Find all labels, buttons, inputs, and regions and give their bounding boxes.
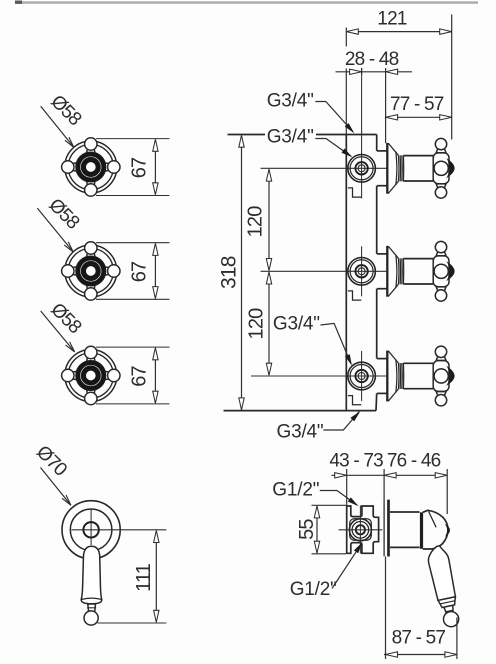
svg-text:G3/4": G3/4" bbox=[277, 422, 324, 443]
svg-text:67: 67 bbox=[128, 157, 150, 178]
svg-text:43 - 73: 43 - 73 bbox=[329, 451, 383, 472]
svg-text:G3/4": G3/4" bbox=[267, 127, 314, 148]
svg-text:55: 55 bbox=[296, 519, 318, 540]
svg-text:G3/4": G3/4" bbox=[267, 91, 314, 112]
svg-text:67: 67 bbox=[128, 365, 150, 386]
svg-text:G3/4": G3/4" bbox=[273, 314, 320, 335]
svg-text:120: 120 bbox=[244, 206, 266, 238]
svg-text:111: 111 bbox=[133, 563, 155, 592]
svg-text:76 - 46: 76 - 46 bbox=[387, 451, 441, 472]
svg-text:87 - 57: 87 - 57 bbox=[392, 628, 446, 649]
svg-text:28 - 48: 28 - 48 bbox=[345, 49, 399, 70]
svg-text:120: 120 bbox=[245, 308, 267, 340]
svg-text:G1/2": G1/2" bbox=[272, 480, 319, 501]
svg-text:77 - 57: 77 - 57 bbox=[390, 94, 444, 115]
svg-text:67: 67 bbox=[128, 261, 150, 282]
svg-text:121: 121 bbox=[377, 8, 407, 29]
svg-text:318: 318 bbox=[218, 256, 241, 289]
svg-text:G1/2": G1/2" bbox=[290, 579, 337, 600]
